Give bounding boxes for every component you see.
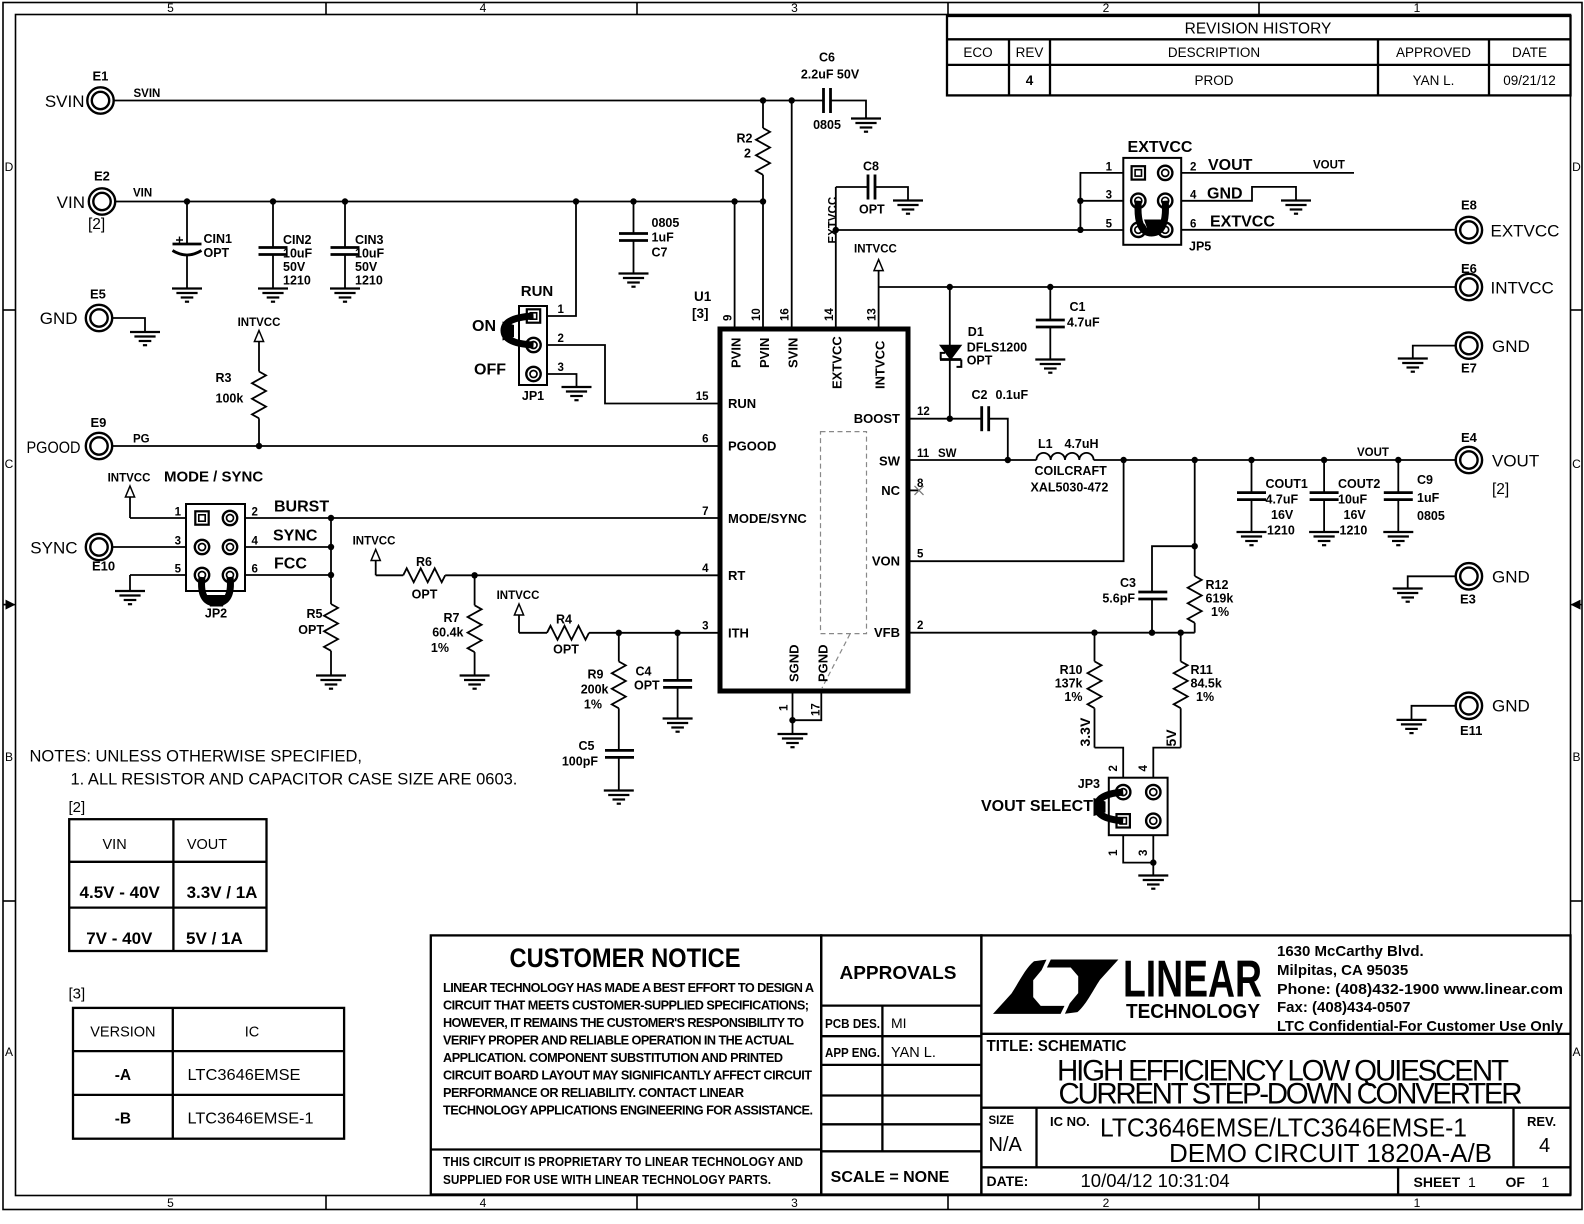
capacitor C1 [1036,287,1100,360]
svg-text:SIZE: SIZE [989,1115,1015,1127]
svg-text:SUPPLIED FOR USE WITH LINEAR T: SUPPLIED FOR USE WITH LINEAR TECHNOLOGY … [443,1173,771,1187]
svg-text:E5: E5 [90,287,106,302]
svg-text:SYNC: SYNC [273,528,318,545]
ground at C9 [1383,532,1413,545]
svg-text:5.6pF: 5.6pF [1102,592,1135,606]
svg-text:XAL5030-472: XAL5030-472 [1031,481,1109,495]
svg-text:VOUT SELECT: VOUT SELECT [981,798,1093,815]
wire JP1 pin3 to ground [547,374,577,387]
IC exposed pad dashed [821,432,867,688]
JP3 shunt cap [1094,792,1124,821]
svg-text:1%: 1% [584,698,602,712]
svg-text:R9: R9 [588,668,604,682]
svg-text:LINEAR TECHNOLOGY HAS MADE A B: LINEAR TECHNOLOGY HAS MADE A BEST EFFORT… [443,981,814,995]
svg-text:0805: 0805 [1417,509,1445,523]
junction FCC [328,572,334,578]
svg-text:REVISION HISTORY: REVISION HISTORY [1185,21,1332,38]
svg-text:10/04/12 10:31:04: 10/04/12 10:31:04 [1081,1170,1230,1191]
svg-text:LTC3646EMSE/LTC3646EMSE-1: LTC3646EMSE/LTC3646EMSE-1 [1100,1115,1467,1143]
resistor R7 [431,575,482,675]
svg-text:E11: E11 [1460,723,1482,738]
wire JP2 pin4 SYNC [245,528,331,548]
approvals text [825,963,957,1186]
svg-text:5V / 1A: 5V / 1A [186,929,243,948]
svg-text:INTVCC: INTVCC [1491,279,1554,298]
wire JP2 pin1 [130,517,186,519]
svg-text:1: 1 [779,704,791,711]
svg-text:N/A: N/A [989,1134,1023,1156]
svg-text:3: 3 [702,620,708,632]
pin 10 lead PVIN [751,202,772,369]
ground at R7 [460,676,490,689]
svg-text:1: 1 [1414,1196,1421,1210]
svg-text:VON: VON [872,554,900,569]
svg-text:1%: 1% [431,641,449,655]
svg-text:DFLS1200: DFLS1200 [967,341,1027,355]
notes text [30,748,518,789]
svg-text:LTC3646EMSE: LTC3646EMSE [188,1067,301,1084]
svg-text:10uF: 10uF [1338,493,1368,507]
terminal E10 SYNC [30,534,115,574]
right zone ticks [1571,310,1583,901]
svg-text:MI: MI [891,1015,907,1031]
terminal E5 GND [40,287,112,332]
junction C9 [1395,457,1401,463]
wire net PG [113,434,721,447]
address text [1277,943,1564,1035]
svg-text:TITLE: SCHEMATIC: TITLE: SCHEMATIC [987,1038,1127,1055]
svg-text:INTVCC: INTVCC [872,340,887,389]
svg-text:3: 3 [791,1,798,15]
svg-text:E3: E3 [1460,592,1476,607]
pin 13 lead INTVCC [867,287,888,389]
terminal E7 GND [1456,332,1530,375]
customer notice footer [443,1155,803,1187]
wire EXTVCC vertical [828,187,840,244]
capacitor C4 [634,633,692,719]
svg-text:BOOST: BOOST [854,411,900,426]
svg-text:Milpitas, CA 95035: Milpitas, CA 95035 [1277,962,1408,979]
svg-text:3: 3 [1138,850,1150,856]
svg-text:2: 2 [1108,765,1120,771]
junction R3 PG [256,443,262,449]
svg-text:INTVCC: INTVCC [497,590,540,602]
svg-text:EXTVCC: EXTVCC [1210,214,1275,231]
wire VFB net [908,632,1195,634]
svg-text:FCC: FCC [274,556,307,573]
svg-text:NC: NC [881,483,900,498]
capacitor C5 [562,739,634,791]
svg-text:5: 5 [175,564,182,576]
net arrow INTVCC at JP2 [108,473,151,519]
svg-text:6: 6 [252,564,258,576]
table 2 text [103,837,228,853]
svg-text:2.2uF 50V: 2.2uF 50V [801,68,860,82]
revision row PROD [1026,73,1556,88]
svg-text:APPLICATION. COMPONENT SUBSTI: APPLICATION. COMPONENT SUBSTITUTION AND … [443,1051,783,1065]
capacitor COUT1 [1237,460,1308,538]
svg-text:PVIN: PVIN [728,338,743,368]
resistor R6 [403,555,445,602]
svg-text:1: 1 [1414,1,1421,15]
left zone letters [5,160,14,1059]
svg-text:200k: 200k [581,683,609,697]
svg-text:E9: E9 [91,415,107,430]
size cell [989,1115,1023,1156]
table 3 header bracket [69,986,86,1003]
pin 15 RUN [696,391,756,411]
ground at CIN2 [258,289,288,302]
svg-text:C4: C4 [636,665,652,679]
svg-text:5: 5 [167,1,174,15]
svg-text:APP ENG.: APP ENG. [825,1046,880,1060]
svg-text:VFB: VFB [874,625,900,640]
svg-text:1210: 1210 [1267,524,1295,538]
pin 3 ITH [702,620,749,640]
wire net VIN [116,188,764,202]
wire net EXTVCC [836,229,1124,231]
svg-text:C: C [5,457,14,471]
svg-text:4.7uH: 4.7uH [1065,437,1099,451]
wire RT net [445,574,720,576]
ground at C1 [1035,360,1065,373]
JP2 shunt cap [202,577,231,607]
svg-text:EXTVCC: EXTVCC [828,197,840,244]
svg-text:2: 2 [1190,162,1196,174]
junction C4 [674,630,680,636]
terminal E9 PGOOD [27,415,113,459]
ground at R5 [316,676,346,689]
svg-text:-B: -B [115,1111,131,1128]
svg-text:CIN3: CIN3 [355,233,384,247]
svg-text:D: D [5,160,14,174]
svg-text:VOUT: VOUT [1357,447,1389,459]
svg-text:REV.: REV. [1527,1114,1556,1129]
svg-text:[2]: [2] [69,799,86,816]
svg-text:SVIN: SVIN [134,88,161,100]
junction JP3 ground [1150,859,1156,865]
svg-text:ECO: ECO [963,45,992,60]
net arrow INTVCC at R3 [238,317,281,372]
svg-text:SHEET: SHEET [1414,1174,1461,1190]
wire JP5 pin4 GND [1181,186,1296,203]
svg-text:SYNC: SYNC [30,539,77,558]
Linear Technology logo mark [993,960,1118,1014]
jumper JP3 VOUT SELECT [981,765,1168,857]
junction JP5 pin3 [1077,198,1083,204]
svg-text:OPT: OPT [967,354,993,368]
junction BURST [328,515,334,521]
wire net SVIN [114,88,824,101]
svg-text:BURST: BURST [274,499,329,516]
wire E10 to JP2 pin3 [113,546,187,548]
ground at CIN3 [330,289,360,302]
svg-text:3: 3 [175,536,181,548]
svg-text:5: 5 [1106,219,1113,231]
svg-text:R10: R10 [1060,663,1083,677]
pin 4 RT [702,563,745,583]
ground at C6 [851,119,881,132]
svg-text:VIN: VIN [57,193,85,212]
table 3 VERSION IC [73,1008,344,1139]
svg-text:OPT: OPT [412,588,438,602]
customer notice body [443,981,814,1118]
resistor R11 [1153,633,1222,778]
svg-text:C7: C7 [652,246,668,260]
svg-text:E4: E4 [1461,430,1478,445]
svg-text:MODE/SYNC: MODE/SYNC [728,511,807,526]
svg-text:2: 2 [1103,1196,1110,1210]
svg-text:1210: 1210 [355,274,383,288]
svg-text:TECHNOLOGY: TECHNOLOGY [1126,1001,1261,1023]
svg-text:9: 9 [723,315,735,321]
wire JP3 pin1 pin3 to ground [1123,835,1153,875]
svg-text:YAN L.: YAN L. [1413,73,1455,88]
svg-text:5: 5 [167,1196,174,1210]
junction C7 [630,198,636,204]
terminal E6 INTVCC [1456,261,1554,300]
terminal E8 EXTVCC [1456,198,1560,244]
svg-text:10uF: 10uF [283,247,313,261]
svg-text:C1: C1 [1070,300,1086,314]
svg-text:INTVCC: INTVCC [238,317,281,329]
svg-text:C8: C8 [863,160,879,174]
svg-text:1%: 1% [1064,690,1082,704]
svg-text:INTVCC: INTVCC [854,244,897,256]
svg-text:2: 2 [558,333,564,345]
svg-text:4: 4 [480,1,487,15]
svg-text:DESCRIPTION: DESCRIPTION [1168,45,1260,60]
svg-text:SCALE = NONE: SCALE = NONE [831,1169,950,1186]
svg-text:1: 1 [1106,162,1113,174]
svg-text:R12: R12 [1206,578,1229,592]
svg-text:6: 6 [702,434,708,446]
ground at JP1 [562,387,592,400]
wire ITH net [589,632,720,634]
svg-text:1: 1 [1468,1174,1476,1190]
pin 6 PGOOD [702,434,776,454]
ground at E11 [1397,720,1427,733]
svg-text:HOWEVER, IT REMAINS THE CUSTOM: HOWEVER, IT REMAINS THE CUSTOMER'S RESPO… [443,1016,804,1030]
net arrow INTVCC at R4 [497,590,547,633]
svg-text:12: 12 [917,406,930,418]
terminal E2 VIN [57,169,116,234]
svg-text:CURRENT STEP-DOWN CONVERTER: CURRENT STEP-DOWN CONVERTER [1059,1078,1523,1111]
date row [987,1170,1550,1191]
svg-text:137k: 137k [1055,677,1083,691]
resistor R12 [1188,546,1234,633]
wire E3 to ground [1408,576,1456,588]
svg-text:PGOOD: PGOOD [728,439,776,454]
svg-text:JP2: JP2 [205,607,227,621]
junction JP1 pin1 [573,198,579,204]
svg-text:100k: 100k [216,392,244,406]
svg-text:JP1: JP1 [522,389,544,403]
jumper JP5 EXTVCC [1106,139,1212,254]
ground at JP3 [1138,876,1168,889]
junction CIN3 [342,198,348,204]
svg-text:[2]: [2] [1492,481,1509,498]
svg-text:RT: RT [728,568,745,583]
svg-text:ON: ON [472,318,496,335]
svg-text:INTVCC: INTVCC [108,473,151,485]
svg-text:REV: REV [1016,45,1044,60]
svg-text:[3]: [3] [692,306,709,321]
svg-text:E2: E2 [94,169,110,184]
ground at COUT2 [1309,532,1339,545]
resistor R10 [1055,633,1124,778]
revision history table [947,16,1571,95]
junction R2 top [760,97,766,103]
svg-text:1%: 1% [1211,605,1229,619]
svg-text:L1: L1 [1038,437,1053,451]
svg-text:C6: C6 [819,51,835,65]
svg-text:INTVCC: INTVCC [353,536,396,548]
pin 5 VON [872,549,924,569]
title block boxes [981,935,1570,1194]
junction VON tap [1120,457,1126,463]
svg-text:D1: D1 [968,325,984,339]
JP1 shunt cap [503,316,534,345]
svg-text:R7: R7 [444,611,460,625]
svg-text:EXTVCC: EXTVCC [1128,139,1193,156]
svg-text:16V: 16V [1344,508,1367,522]
ground at E7 [1398,359,1428,372]
svg-text:DATE:: DATE: [987,1173,1029,1189]
terminal E1 SVIN [45,69,114,114]
ground at E5 [130,332,160,345]
svg-text:TECHNOLOGY APPLICATIONS ENGINE: TECHNOLOGY APPLICATIONS ENGINEERING FOR … [443,1104,813,1118]
left zone ticks [3,310,16,901]
svg-text:GND: GND [1492,697,1530,716]
junction COUT2 [1321,457,1327,463]
svg-text:CUSTOMER NOTICE: CUSTOMER NOTICE [510,943,741,973]
svg-text:3: 3 [558,362,564,374]
svg-text:COUT1: COUT1 [1266,477,1308,491]
svg-text:7V - 40V: 7V - 40V [86,929,153,948]
wire R5 vertical [330,518,332,604]
main title [1057,1055,1523,1111]
svg-text:APPROVED: APPROVED [1396,45,1471,60]
svg-text:100pF: 100pF [562,755,598,769]
svg-text:4: 4 [1190,190,1197,202]
junction C1 INTVCC [1047,284,1053,290]
svg-text:U1: U1 [694,289,712,304]
junction C3 R12 [1192,543,1198,549]
wire BOOST [908,418,982,420]
capacitor C7 [619,202,679,274]
resistor R9 [581,633,626,751]
junction SGND PGND [789,717,795,723]
junction D1 INTVCC [947,284,953,290]
svg-text:7: 7 [702,506,708,518]
wire net INTVCC [879,286,1456,288]
svg-text:16V: 16V [1271,508,1294,522]
pin 9 lead PVIN [723,202,744,369]
junction R11 VFB [1178,630,1184,636]
svg-text:GND: GND [1492,337,1530,356]
svg-text:B: B [1572,750,1580,764]
wire SW net [908,459,1036,461]
customer notice box [431,935,821,1194]
svg-text:YAN L.: YAN L. [891,1045,936,1061]
svg-text:VOUT: VOUT [1208,157,1253,174]
svg-text:SGND: SGND [786,644,801,682]
label MODE / SYNC [164,469,263,486]
table 3 text [90,1025,259,1041]
capacitor COUT2 [1310,460,1381,538]
ground at JP5 pin4 [1281,201,1311,214]
junction SYNC [328,544,334,550]
svg-text:IC: IC [245,1025,260,1041]
svg-text:SW: SW [879,453,901,468]
svg-text:4: 4 [1539,1135,1550,1157]
svg-text:DATE: DATE [1512,45,1547,60]
svg-text:JP3: JP3 [1078,777,1100,791]
junction C3 VFB [1149,630,1155,636]
svg-text:OPT: OPT [204,246,230,260]
net arrow INTVCC at R6 [353,536,404,576]
svg-text:C9: C9 [1417,473,1433,487]
left centering arrow [3,600,16,610]
ground at JP2 pin5 [115,591,145,604]
svg-text:DEMO CIRCUIT 1820A-A/B: DEMO CIRCUIT 1820A-A/B [1169,1140,1492,1168]
svg-text:619k: 619k [1206,592,1234,606]
svg-text:R6: R6 [416,555,432,569]
svg-text:16: 16 [780,308,792,321]
svg-text:1: 1 [175,507,182,519]
terminal E3 GND [1456,563,1530,606]
bottom zone numbers [167,1196,1421,1210]
svg-text:LINEAR: LINEAR [1123,951,1262,1009]
wire E5 to ground [113,318,146,332]
wire JP5 pin1 [1080,173,1123,230]
svg-text:OPT: OPT [859,203,885,217]
svg-text:C3: C3 [1120,576,1136,590]
svg-text:LTC3646EMSE-1: LTC3646EMSE-1 [188,1111,314,1128]
junction pin10 R2 [760,198,766,204]
svg-text:VERIFY PROPER AND RELIABLE OPE: VERIFY PROPER AND RELIABLE OPERATION IN … [443,1034,794,1048]
svg-text:E10: E10 [92,559,115,574]
inductor L1 [1031,437,1109,495]
svg-text:CIRCUIT THAT MEETS CUSTOMER-SU: CIRCUIT THAT MEETS CUSTOMER-SUPPLIED SPE… [443,999,809,1013]
svg-text:OPT: OPT [298,623,324,637]
svg-text:PCB DES.: PCB DES. [825,1017,880,1031]
junction EXTVCC C8 [833,227,839,233]
capacitor C2 [972,388,1029,460]
svg-text:GND: GND [1207,186,1243,203]
svg-text:-A: -A [115,1067,131,1084]
capacitor C8 [836,160,908,217]
right zone letters [1572,160,1581,1059]
svg-text:RUN: RUN [521,283,554,300]
svg-text:NOTES: UNLESS OTHERWISE SPECIF: NOTES: UNLESS OTHERWISE SPECIFIED, [30,748,363,766]
terminal E4 VOUT [1456,430,1540,498]
svg-text:A: A [1572,1045,1580,1059]
ground at C7 [619,274,649,287]
svg-text:A: A [5,1045,13,1059]
jumper JP2 [175,504,259,621]
svg-text:[2]: [2] [88,216,105,233]
svg-text:RUN: RUN [728,396,756,411]
svg-text:09/21/12: 09/21/12 [1503,73,1556,88]
pin 14 lead EXTVCC [824,230,845,389]
svg-text:VIN: VIN [133,188,152,200]
pin 1 SGND [779,644,802,720]
terminal E11 GND [1456,693,1530,738]
resistor R5 [298,604,338,676]
svg-text:VOUT: VOUT [187,837,227,853]
